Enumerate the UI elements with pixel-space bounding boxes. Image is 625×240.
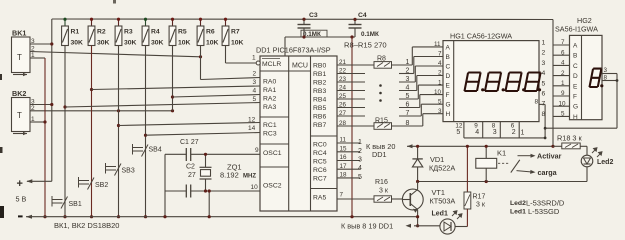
- svg-text:4: 4: [475, 129, 479, 136]
- svg-text:23: 23: [339, 76, 347, 83]
- HG1 digits: [465, 73, 481, 92]
- svg-text:4: 4: [406, 85, 410, 92]
- MCLR inversion circle: [256, 61, 260, 65]
- svg-text:RB3: RB3: [313, 88, 326, 95]
- svg-text:30K: 30K: [151, 40, 164, 47]
- node digit bus: [464, 137, 545, 139]
- svg-text:A: A: [573, 43, 578, 50]
- svg-text:3 к: 3 к: [476, 202, 486, 209]
- svg-text:F: F: [573, 94, 577, 101]
- resistor R2 30K: [91, 19, 93, 26]
- svg-text:5: 5: [406, 93, 410, 100]
- relay K1 switch: [498, 162, 509, 164]
- svg-text:1: 1: [561, 80, 565, 87]
- svg-text:28: 28: [339, 120, 347, 127]
- svg-text:R4: R4: [151, 29, 160, 36]
- svg-text:RC6: RC6: [313, 167, 327, 174]
- svg-text:RC1: RC1: [263, 122, 277, 129]
- svg-text:MCLR: MCLR: [262, 61, 281, 68]
- svg-text:2: 2: [438, 70, 442, 77]
- svg-text:MCU: MCU: [292, 63, 308, 70]
- Led1 light arrows: [452, 211, 462, 219]
- svg-text:H: H: [573, 114, 578, 121]
- HG2 segment stubs: [553, 44, 570, 46]
- scan smudges: [0, 74, 2, 80]
- svg-text:5: 5: [561, 111, 565, 118]
- svg-text:15: 15: [340, 146, 348, 153]
- HG2 digit: [590, 69, 602, 87]
- svg-text:C2: C2: [186, 164, 195, 171]
- svg-text:E: E: [573, 83, 578, 90]
- wire R5 column: [172, 46, 174, 111]
- svg-text:SA56-I1GWA: SA56-I1GWA: [555, 25, 598, 34]
- svg-text:L-53SGD: L-53SGD: [528, 207, 560, 216]
- resistor R6 10K: [200, 19, 202, 26]
- svg-text:4: 4: [561, 60, 565, 67]
- resistor R4 30K: [145, 19, 147, 26]
- svg-text:2: 2: [512, 129, 516, 136]
- svg-text:22: 22: [339, 67, 347, 74]
- svg-text:МНZ: МНZ: [243, 174, 256, 180]
- svg-text:R18 3 к: R18 3 к: [557, 134, 582, 143]
- svg-text:RB5: RB5: [313, 105, 326, 112]
- svg-text:3: 3: [493, 129, 497, 136]
- svg-text:RB4: RB4: [313, 97, 326, 104]
- svg-text:E: E: [446, 83, 451, 90]
- svg-text:R7: R7: [231, 29, 240, 36]
- svg-text:27: 27: [188, 172, 196, 179]
- svg-text:4: 4: [253, 88, 257, 95]
- svg-text:5: 5: [438, 98, 442, 105]
- wire decoupling ground drop: [351, 37, 353, 217]
- BK2 case arrow: [13, 133, 27, 135]
- svg-text:10: 10: [251, 184, 259, 191]
- wire R1 column to SB1: [64, 46, 66, 217]
- svg-text:6: 6: [406, 102, 410, 109]
- svg-text:SB4: SB4: [149, 147, 162, 154]
- wires RB1-RB6 stubs: [337, 73, 365, 75]
- svg-text:DD1 PIC16F873A-I/SP: DD1 PIC16F873A-I/SP: [256, 46, 331, 55]
- wire HG2 common riser: [544, 104, 546, 137]
- svg-text:Led2: Led2: [510, 200, 526, 207]
- svg-text:R16: R16: [375, 179, 388, 186]
- svg-text:30K: 30K: [71, 40, 84, 47]
- svg-text:RB6: RB6: [313, 114, 326, 121]
- svg-text:RA3: RA3: [263, 104, 276, 111]
- wire R7 column to MCLR: [225, 46, 227, 64]
- svg-text:R1: R1: [71, 29, 80, 36]
- svg-text:9: 9: [255, 147, 259, 154]
- svg-text:SB3: SB3: [122, 168, 135, 175]
- svg-text:5: 5: [358, 174, 362, 181]
- svg-text:30K: 30K: [124, 40, 137, 47]
- svg-text:RB0: RB0: [313, 63, 326, 70]
- svg-text:8: 8: [406, 120, 410, 127]
- svg-text:27: 27: [339, 110, 347, 117]
- svg-text:5 В: 5 В: [16, 195, 27, 204]
- resistor R7 10K: [225, 19, 227, 26]
- svg-text:B: B: [446, 54, 450, 61]
- svg-text:R17: R17: [473, 194, 486, 201]
- svg-text:B: B: [573, 53, 577, 60]
- svg-text:RC7: RC7: [313, 176, 327, 183]
- svg-text:BK2: BK2: [12, 89, 26, 98]
- svg-text:Led1: Led1: [510, 209, 526, 216]
- svg-text:T: T: [17, 111, 22, 120]
- svg-text:F: F: [446, 92, 450, 99]
- svg-text:7: 7: [340, 192, 344, 199]
- pushbutton SB4: [133, 147, 144, 149]
- svg-text:RC5: RC5: [313, 159, 327, 166]
- svg-text:RB7: RB7: [313, 122, 326, 129]
- svg-text:+: +: [17, 178, 23, 190]
- svg-text:K1: K1: [497, 149, 506, 158]
- svg-text:4: 4: [438, 60, 442, 67]
- svg-text:14: 14: [248, 125, 256, 132]
- svg-text:8.192: 8.192: [220, 171, 239, 180]
- svg-text:R5: R5: [178, 29, 187, 36]
- svg-text:КТ503А: КТ503А: [430, 197, 456, 206]
- svg-text:SB1: SB1: [69, 201, 82, 208]
- svg-text:7: 7: [561, 39, 565, 46]
- svg-text:2: 2: [561, 70, 565, 77]
- svg-text:0.1МК: 0.1МК: [361, 31, 379, 38]
- svg-text:6: 6: [542, 91, 546, 98]
- svg-text:Activar: Activar: [537, 152, 562, 161]
- svg-text:Led1: Led1: [432, 211, 448, 218]
- LED Led2 L-53SRD/D: [586, 146, 588, 155]
- svg-text:ВК1, ВК2 DS18В20: ВК1, ВК2 DS18В20: [54, 221, 119, 230]
- svg-text:17: 17: [340, 163, 348, 170]
- svg-text:1: 1: [406, 59, 410, 66]
- wire caps ground vertical: [164, 154, 166, 216]
- svg-text:RC0: RC0: [313, 142, 327, 149]
- svg-text:26: 26: [339, 101, 347, 108]
- svg-text:1: 1: [438, 79, 442, 86]
- resistor R3 30K: [118, 19, 120, 26]
- svg-text:11: 11: [340, 137, 347, 144]
- pushbutton SB3: [106, 166, 117, 168]
- svg-text:D: D: [573, 73, 578, 80]
- svg-text:16: 16: [340, 154, 348, 161]
- Led2 light arrows: [592, 148, 602, 157]
- wire R3 column to SB3: [118, 46, 120, 217]
- svg-text:RA1: RA1: [263, 87, 276, 94]
- minus terminal: [18, 215, 23, 217]
- svg-text:1: 1: [358, 139, 362, 146]
- svg-text:4: 4: [542, 70, 546, 77]
- svg-text:RA2: RA2: [263, 96, 276, 103]
- svg-text:2: 2: [542, 50, 546, 57]
- transistor VT1 KT503A: [402, 189, 423, 210]
- svg-text:1: 1: [521, 130, 525, 137]
- pushbutton SB2: [79, 180, 90, 182]
- svg-text:7: 7: [438, 51, 442, 58]
- crystal ZQ1 8.192 MHz: [205, 154, 207, 167]
- dots ellipsis R9-R14: [379, 84, 382, 87]
- svg-text:RB1: RB1: [313, 71, 326, 78]
- svg-text:HG1 CA56-12GWA: HG1 CA56-12GWA: [450, 32, 512, 41]
- wire R6 column: [200, 46, 202, 80]
- svg-text:6: 6: [561, 49, 565, 56]
- svg-text:C1 27: C1 27: [180, 139, 199, 146]
- diode VD1 KD522A: [417, 146, 419, 159]
- svg-text:T: T: [17, 53, 22, 62]
- svg-text:C4: C4: [358, 12, 367, 19]
- wire +5V top rail: [52, 18, 553, 21]
- svg-text:Led2: Led2: [597, 159, 613, 166]
- svg-text:К выв 8 19 DD1: К выв 8 19 DD1: [341, 222, 393, 231]
- wire +5V left vertical: [51, 19, 53, 181]
- svg-text:8: 8: [542, 111, 546, 118]
- svg-text:C: C: [573, 63, 578, 70]
- svg-text:3: 3: [542, 60, 546, 67]
- wire R2 column to SB2: [91, 46, 93, 217]
- svg-text:7: 7: [406, 110, 410, 117]
- svg-text:C3: C3: [309, 12, 318, 19]
- ground rail: [26, 216, 418, 218]
- arrow Activar: [518, 155, 533, 157]
- wire osc ground vertical: [208, 191, 210, 217]
- HG1 digit select pins: [463, 122, 465, 138]
- svg-text:10: 10: [434, 89, 442, 96]
- svg-text:2: 2: [253, 71, 257, 78]
- svg-text:H: H: [446, 111, 451, 118]
- wire MCU ground stub: [351, 211, 353, 217]
- bus segment staircase: [411, 47, 413, 65]
- wire BK ground vertical: [44, 58, 46, 217]
- svg-text:R6: R6: [206, 29, 215, 36]
- svg-text:21: 21: [339, 59, 347, 66]
- svg-text:1: 1: [542, 40, 546, 47]
- svg-text:24: 24: [339, 84, 347, 91]
- arrow carga: [517, 171, 533, 172]
- svg-text:RB2: RB2: [313, 80, 326, 87]
- svg-text:BK1: BK1: [12, 29, 26, 38]
- svg-text:9: 9: [561, 90, 565, 97]
- svg-text:R8–R15 270: R8–R15 270: [344, 41, 387, 50]
- BK1 case arrow: [13, 74, 27, 76]
- svg-text:30K: 30K: [97, 40, 110, 47]
- wire +5V rail drop to K1 area: [552, 20, 554, 147]
- svg-text:SB2: SB2: [95, 182, 108, 189]
- svg-text:G: G: [573, 104, 578, 111]
- svg-text:КД522А: КД522А: [429, 164, 455, 173]
- svg-text:3: 3: [438, 108, 442, 115]
- svg-text:10K: 10K: [206, 40, 219, 47]
- svg-text:10: 10: [559, 100, 567, 107]
- svg-text:1: 1: [252, 55, 256, 62]
- svg-text:5: 5: [253, 96, 257, 103]
- svg-text:RA0: RA0: [263, 79, 276, 86]
- svg-text:25: 25: [339, 93, 347, 100]
- svg-text:R2: R2: [97, 29, 106, 36]
- svg-text:8: 8: [535, 99, 539, 106]
- svg-text:3: 3: [253, 79, 257, 86]
- svg-text:R3: R3: [124, 29, 133, 36]
- svg-text:2: 2: [406, 68, 410, 75]
- svg-text:OSC2: OSC2: [263, 183, 282, 190]
- pushbutton SB1: [52, 199, 63, 201]
- svg-text:G: G: [446, 102, 451, 109]
- svg-text:carga: carga: [538, 168, 558, 177]
- svg-text:D: D: [446, 73, 451, 80]
- svg-text:DD1: DD1: [372, 150, 387, 159]
- svg-text:18: 18: [340, 172, 348, 179]
- svg-text:RC3: RC3: [263, 131, 277, 138]
- svg-text:RC4: RC4: [313, 150, 327, 157]
- MCU right RC pins: [337, 142, 360, 144]
- svg-text:RA5: RA5: [313, 195, 326, 202]
- svg-text:11: 11: [434, 41, 441, 48]
- wire C3 C4 return: [285, 36, 355, 38]
- node collector line: [418, 181, 587, 183]
- svg-text:C: C: [446, 64, 451, 71]
- svg-text:2: 2: [358, 148, 362, 155]
- resistor R17 3k: [466, 146, 468, 192]
- svg-text:10K: 10K: [231, 40, 244, 47]
- resistor R1 30K: [64, 19, 66, 26]
- svg-text:OSC1: OSC1: [263, 150, 282, 157]
- resistor R5 10K: [172, 19, 174, 26]
- svg-text:3: 3: [406, 76, 410, 83]
- svg-text:3 к: 3 к: [379, 188, 389, 195]
- svg-text:5: 5: [456, 129, 460, 136]
- svg-text:5: 5: [542, 80, 546, 87]
- svg-text:7: 7: [542, 101, 546, 108]
- svg-text:3: 3: [358, 157, 362, 164]
- svg-text:4: 4: [358, 165, 362, 172]
- wire R4 column to SB4: [145, 46, 147, 217]
- svg-text:10K: 10K: [178, 40, 191, 47]
- svg-text:A: A: [446, 44, 451, 51]
